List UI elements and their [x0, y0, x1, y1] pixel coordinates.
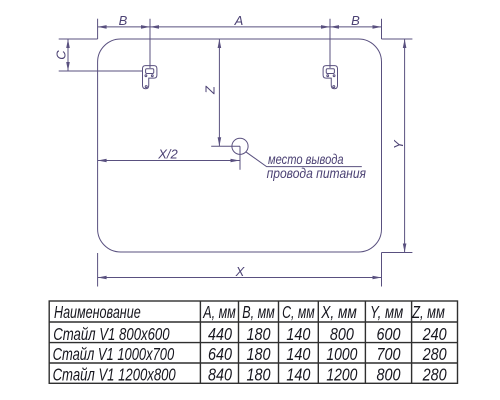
svg-text:140: 140 — [286, 324, 310, 344]
arrow B2 right — [373, 25, 382, 29]
power outlet circle — [232, 138, 248, 154]
arrow X right — [373, 276, 382, 280]
top dimension line — [98, 26, 382, 28]
svg-text:Х, мм: Х, мм — [320, 302, 357, 322]
svg-text:240: 240 — [422, 324, 447, 344]
arrow Z bottom — [218, 137, 222, 146]
svg-text:440: 440 — [208, 324, 232, 344]
arrow C top — [66, 39, 70, 48]
table column line 2 — [238, 301, 240, 383]
svg-text:Наименование: Наименование — [54, 302, 141, 322]
svg-text:Y, мм: Y, мм — [370, 302, 403, 322]
leader line — [246, 152, 362, 167]
svg-text:600: 600 — [377, 324, 401, 344]
svg-text:В, мм: В, мм — [242, 302, 275, 322]
svg-text:А, мм: А, мм — [203, 302, 236, 322]
svg-text:140: 140 — [286, 365, 310, 385]
table row line 1 — [49, 321, 457, 323]
svg-text:С, мм: С, мм — [282, 302, 315, 322]
svg-text:1000: 1000 — [326, 344, 357, 364]
panel outline — [98, 39, 382, 252]
svg-text:Х/2: Х/2 — [157, 146, 178, 161]
arrow B left — [98, 25, 107, 29]
table outer border — [49, 301, 457, 383]
svg-text:840: 840 — [208, 365, 232, 385]
svg-text:1200: 1200 — [326, 365, 357, 385]
table column line 4 — [317, 301, 319, 383]
svg-text:800: 800 — [330, 324, 354, 344]
svg-text:180: 180 — [247, 344, 271, 364]
table column line 6 — [411, 301, 413, 383]
table column line 1 — [199, 301, 201, 383]
extension top-right horizontal — [382, 38, 413, 40]
arrow B right — [141, 25, 150, 29]
dimensions table grid — [49, 301, 457, 383]
extension line left edge — [97, 19, 99, 39]
mounting bracket left — [143, 66, 157, 89]
extension line right bracket — [329, 19, 331, 68]
extension top-left horizontal — [59, 38, 98, 40]
arrow B2 left — [330, 25, 339, 29]
svg-text:провода питания: провода питания — [267, 165, 367, 181]
dimension Y line — [404, 39, 406, 253]
svg-text:A: A — [234, 13, 244, 28]
svg-text:Z: Z — [203, 85, 218, 95]
extension bottom-left vertical — [97, 253, 99, 287]
arrow Y bottom — [403, 244, 407, 253]
svg-text:Стайл V1 800х600: Стайл V1 800х600 — [53, 324, 170, 344]
arrow A left — [150, 25, 159, 29]
svg-text:B: B — [119, 13, 128, 28]
extension bottom-right vertical — [381, 253, 383, 287]
extension line right edge — [381, 19, 383, 39]
mounting bracket right — [323, 66, 337, 89]
svg-text:800: 800 — [377, 365, 401, 385]
svg-text:X: X — [235, 264, 246, 279]
svg-text:180: 180 — [247, 324, 271, 344]
svg-text:140: 140 — [286, 344, 310, 364]
extension line left bracket — [149, 19, 151, 68]
extension circle-level horizontal — [211, 145, 240, 147]
arrow A right — [321, 25, 330, 29]
svg-text:640: 640 — [208, 344, 232, 364]
svg-text:280: 280 — [422, 365, 447, 385]
svg-text:180: 180 — [247, 365, 271, 385]
svg-text:700: 700 — [377, 344, 401, 364]
dimension X line — [98, 277, 382, 279]
svg-text:Y: Y — [391, 139, 406, 149]
arrow X/2 left — [98, 159, 107, 163]
arrow X left — [98, 276, 107, 280]
svg-text:B: B — [351, 13, 360, 28]
extension bracket-level horizontal — [59, 70, 143, 72]
dimension Z line — [218, 39, 220, 146]
arrow X/2 right — [231, 159, 240, 163]
arrow C bottom — [66, 62, 70, 71]
extension below circle vertical — [239, 146, 241, 169]
svg-text:Z, мм: Z, мм — [411, 302, 445, 322]
svg-text:Стайл V1 1200х800: Стайл V1 1200х800 — [53, 365, 176, 385]
dimension C line — [67, 39, 69, 71]
svg-text:Стайл V1 1000х700: Стайл V1 1000х700 — [53, 344, 175, 364]
arrow Z top — [218, 39, 222, 48]
svg-text:C: C — [54, 50, 69, 60]
table column line 5 — [364, 301, 366, 383]
table column line 3 — [278, 301, 280, 383]
extension bottom-right horizontal — [382, 252, 413, 254]
arrow Y top — [403, 39, 407, 48]
table row line 3 — [49, 362, 457, 364]
svg-text:280: 280 — [422, 344, 447, 364]
table row line 2 — [49, 342, 457, 344]
dimension X/2 line — [98, 160, 240, 162]
